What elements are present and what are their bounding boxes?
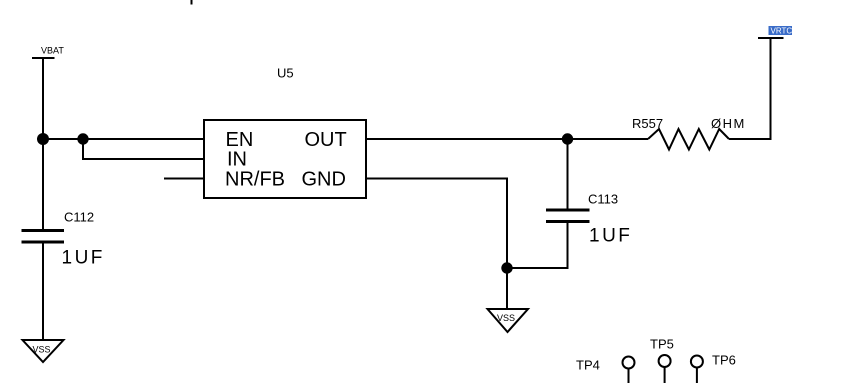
wire EN net xyxy=(43,138,205,140)
svg-text:1UF: 1UF xyxy=(62,248,105,269)
svg-text:ØHM: ØHM xyxy=(711,116,746,131)
svg-text:C112: C112 xyxy=(64,210,94,225)
test point TP4 xyxy=(576,357,635,383)
svg-text:1UF: 1UF xyxy=(589,226,632,247)
wire R557 to VRTC xyxy=(729,38,771,139)
svg-text:C113: C113 xyxy=(588,192,618,207)
node B (junction dot) xyxy=(77,133,88,144)
wire C112 to ground xyxy=(42,242,44,340)
svg-text:NR/FB: NR/FB xyxy=(225,169,285,191)
capacitor C113 xyxy=(546,192,632,247)
wire (cut-off stub at top edge) xyxy=(191,0,193,5)
wire NR/FB stub xyxy=(164,178,205,180)
svg-text:VSS: VSS xyxy=(33,345,51,355)
svg-text:VRTC: VRTC xyxy=(771,27,793,36)
power symbol VRTC (selected label) xyxy=(758,26,792,38)
svg-text:TP5: TP5 xyxy=(650,337,674,352)
wire IN net xyxy=(83,139,205,159)
svg-text:VSS: VSS xyxy=(497,313,515,323)
wire node C to C113 xyxy=(567,139,569,210)
svg-text:U5: U5 xyxy=(277,66,294,81)
wire node A to C112 xyxy=(42,139,44,230)
op-amp U5 (regulator box) xyxy=(204,66,366,199)
svg-text:TP6: TP6 xyxy=(712,353,736,368)
wire C113 to node D xyxy=(507,222,568,269)
svg-text:TP4: TP4 xyxy=(576,358,600,373)
svg-text:GND: GND xyxy=(302,169,346,191)
node C (junction dot) xyxy=(562,133,573,144)
power symbol VBAT xyxy=(32,46,64,59)
svg-text:IN: IN xyxy=(227,149,247,171)
ground VSS (right) xyxy=(488,309,529,332)
svg-text:VBAT: VBAT xyxy=(41,46,64,56)
test point TP5 xyxy=(650,337,674,383)
svg-text:OUT: OUT xyxy=(305,129,347,151)
wire OUT net xyxy=(366,138,648,140)
ground VSS (left) xyxy=(23,340,64,362)
wire VBAT to node xyxy=(42,58,44,139)
wire node D to ground xyxy=(506,268,508,309)
resistor R557 xyxy=(632,116,746,150)
capacitor C112 xyxy=(22,210,105,269)
node D (junction dot) xyxy=(501,262,512,273)
wire GND net xyxy=(366,179,507,269)
node A (junction dot) xyxy=(37,133,49,145)
test point TP6 xyxy=(691,353,736,383)
svg-text:R557: R557 xyxy=(632,116,663,131)
